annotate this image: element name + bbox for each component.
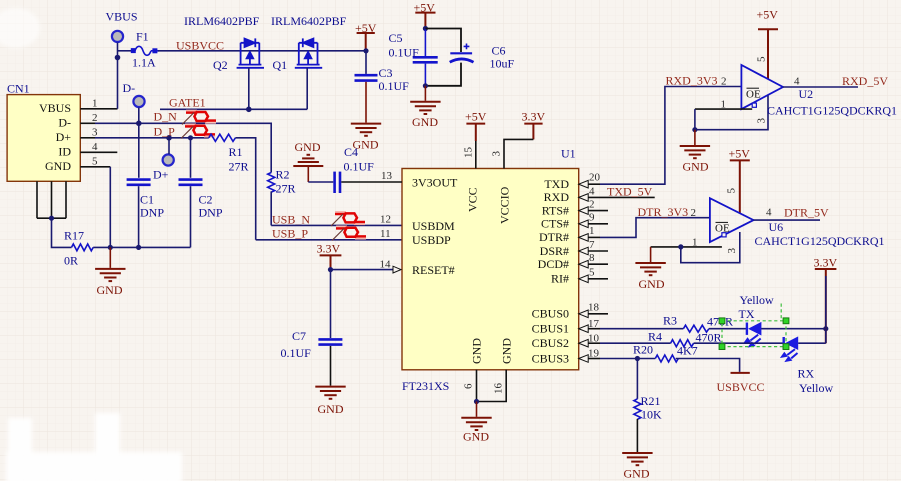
wire USB_N bbox=[271, 224, 402, 226]
svg-text:2: 2 bbox=[691, 207, 697, 219]
svg-text:0R: 0R bbox=[64, 254, 78, 268]
svg-text:DTR_5V: DTR_5V bbox=[784, 206, 829, 220]
U1 pin 20 (TXD) bbox=[579, 180, 589, 188]
svg-text:TXD_5V: TXD_5V bbox=[607, 185, 653, 199]
wire R21 to GND bbox=[636, 419, 638, 452]
LED TX bbox=[743, 322, 761, 348]
wire R17 to rail bbox=[93, 246, 110, 248]
svg-text:Yellow: Yellow bbox=[740, 293, 774, 307]
resistor R20 bbox=[655, 355, 678, 362]
transistor Q2 bbox=[237, 38, 264, 67]
svg-text:D_P: D_P bbox=[154, 125, 176, 139]
svg-text:DNP: DNP bbox=[140, 206, 164, 220]
capacitor C6 (polarized) bbox=[450, 44, 474, 63]
svg-text:RXD: RXD bbox=[544, 190, 570, 204]
CN1 pin 5 bbox=[80, 166, 110, 168]
svg-text:0.1UF: 0.1UF bbox=[281, 346, 312, 360]
svg-text:VCCIO: VCCIO bbox=[498, 186, 512, 224]
svg-text:5: 5 bbox=[92, 155, 98, 167]
svg-text:D-: D- bbox=[58, 115, 71, 129]
ground (U1) bbox=[476, 402, 478, 417]
junction RESET bbox=[328, 267, 333, 272]
green dashed box bbox=[722, 304, 786, 347]
svg-text:VBUS: VBUS bbox=[106, 10, 138, 24]
svg-text:4: 4 bbox=[794, 76, 800, 88]
fuse F1 bbox=[132, 46, 159, 55]
svg-text:10: 10 bbox=[588, 333, 600, 345]
junction shield bbox=[49, 216, 54, 221]
IC U1 body bbox=[402, 169, 579, 370]
svg-text:R20: R20 bbox=[633, 343, 653, 357]
wire C2 up to D_P bbox=[190, 138, 192, 178]
junction C2 bbox=[188, 135, 193, 140]
svg-text:C7: C7 bbox=[292, 329, 306, 343]
svg-text:USBVCC: USBVCC bbox=[176, 39, 224, 53]
pad VBUS bbox=[112, 31, 123, 42]
svg-text:ID: ID bbox=[58, 145, 71, 159]
svg-text:U6: U6 bbox=[769, 220, 784, 234]
svg-text:8: 8 bbox=[589, 252, 595, 264]
svg-text:3.3V: 3.3V bbox=[522, 110, 546, 124]
svg-text:3: 3 bbox=[726, 248, 738, 254]
svg-text:27R: 27R bbox=[229, 160, 249, 174]
U1 pin 9 (CTS#) bbox=[579, 220, 589, 228]
U1 pin 14 wire bbox=[331, 269, 394, 271]
wire D_N bbox=[95, 123, 271, 172]
resistor R4 bbox=[671, 340, 694, 347]
white smudge top-left bbox=[0, 8, 40, 48]
svg-text:Q2: Q2 bbox=[213, 58, 228, 72]
junction Q2 gate bbox=[246, 107, 252, 113]
junction D- bbox=[136, 121, 142, 127]
resistor R2 bbox=[268, 173, 275, 193]
svg-text:3V3OUT: 3V3OUT bbox=[412, 176, 458, 190]
svg-text:CBUS1: CBUS1 bbox=[532, 321, 569, 335]
svg-text:USBVCC: USBVCC bbox=[717, 380, 765, 394]
U6 output wire pin 4 bbox=[754, 219, 821, 221]
svg-text:VBUS: VBUS bbox=[39, 101, 71, 115]
ground (C7) bbox=[315, 387, 345, 399]
ground (C3) bbox=[351, 124, 381, 136]
wire GATE1 bbox=[160, 108, 307, 110]
ground (C5/C6) bbox=[424, 86, 426, 101]
svg-text:U1: U1 bbox=[561, 147, 576, 161]
junction rail-C1 bbox=[136, 245, 141, 250]
U1 GND pins 6/16 bbox=[477, 370, 507, 402]
svg-text:16: 16 bbox=[493, 383, 505, 395]
svg-text:R3: R3 bbox=[663, 314, 677, 328]
svg-text:1: 1 bbox=[692, 237, 698, 249]
wire R1 to USB_P bbox=[235, 138, 255, 240]
wire R2 to USB_N bbox=[270, 191, 272, 225]
wire Q2 gate bbox=[248, 68, 250, 110]
ground (U2) bbox=[694, 130, 696, 145]
svg-text:TXD: TXD bbox=[544, 177, 569, 191]
svg-text:R17: R17 bbox=[64, 229, 84, 243]
junction D+ bbox=[166, 135, 172, 141]
CN1 pin 1 bbox=[80, 108, 117, 110]
svg-text:RXD_3V3: RXD_3V3 bbox=[666, 74, 718, 88]
svg-text:3.3V: 3.3V bbox=[814, 256, 838, 270]
svg-text:GND: GND bbox=[683, 160, 709, 174]
wire shield to R17 bbox=[52, 218, 72, 247]
wire C4 GND stem bbox=[307, 166, 309, 182]
svg-text:+5V: +5V bbox=[729, 147, 751, 161]
svg-text:GND: GND bbox=[97, 283, 123, 297]
U1 pin 1 (DTR#) bbox=[579, 234, 589, 242]
wire D_P bbox=[95, 137, 209, 139]
svg-text:D-: D- bbox=[123, 81, 136, 95]
wire TXD to U2 input (RXD_3V3) bbox=[600, 87, 741, 185]
svg-text:15: 15 bbox=[463, 147, 475, 159]
svg-text:3: 3 bbox=[92, 126, 98, 138]
svg-text:GND: GND bbox=[500, 338, 514, 364]
wire D+ to pin3 wire bbox=[168, 138, 170, 154]
svg-text:GND: GND bbox=[295, 140, 321, 154]
U1 pin 10 (CBUS2) bbox=[579, 339, 589, 347]
U1 pin 5 (RI#) bbox=[579, 275, 589, 283]
transistor Q1 bbox=[295, 38, 322, 67]
svg-text:4: 4 bbox=[589, 186, 595, 198]
svg-text:0.1UF: 0.1UF bbox=[389, 46, 420, 60]
wire CBUS1 to R3 bbox=[600, 328, 683, 330]
svg-text:1.1A: 1.1A bbox=[132, 56, 156, 70]
svg-text:5: 5 bbox=[756, 56, 768, 62]
svg-text:OE: OE bbox=[746, 89, 761, 101]
U1 pin 8 (DCD#) bbox=[579, 260, 589, 268]
wire ground rail bbox=[110, 246, 190, 248]
wire CBUS3 to R20 bbox=[600, 358, 655, 360]
pad D- bbox=[133, 96, 144, 107]
svg-text:C4: C4 bbox=[344, 145, 358, 159]
svg-text:USB_P: USB_P bbox=[272, 227, 308, 241]
wire VBUS to fuse bbox=[118, 50, 133, 52]
svg-text:CBUS3: CBUS3 bbox=[532, 351, 569, 365]
wire VBUS vertical bbox=[117, 43, 119, 109]
svg-text:+5V: +5V bbox=[465, 110, 487, 124]
svg-text:2: 2 bbox=[589, 199, 595, 211]
svg-text:13: 13 bbox=[381, 170, 393, 182]
wire R3 to LED TX bbox=[709, 328, 747, 330]
ground (U6) bbox=[650, 247, 652, 262]
svg-text:TX: TX bbox=[739, 307, 755, 321]
wire 3.3V to C7 bbox=[330, 270, 332, 338]
junction U6 gnd bbox=[678, 244, 683, 249]
wire USB_P bbox=[256, 239, 402, 241]
wire R4 to LED RX bbox=[694, 342, 784, 344]
junction C5 top bbox=[423, 26, 428, 31]
svg-text:RX: RX bbox=[798, 367, 815, 381]
ground GND (CN1) bbox=[109, 247, 111, 268]
LED RX bbox=[780, 336, 798, 362]
svg-text:USBDM: USBDM bbox=[412, 219, 455, 233]
svg-text:DTR#: DTR# bbox=[539, 230, 569, 244]
buffer U2 triangle bbox=[741, 65, 783, 109]
svg-text:GND: GND bbox=[318, 402, 344, 416]
svg-text:27R: 27R bbox=[276, 182, 296, 196]
svg-text:19: 19 bbox=[588, 348, 600, 360]
svg-text:18: 18 bbox=[588, 302, 600, 314]
svg-text:USB_N: USB_N bbox=[272, 213, 310, 227]
svg-text:C6: C6 bbox=[492, 44, 506, 58]
wire Q1 gate bbox=[306, 68, 308, 110]
svg-text:R21: R21 bbox=[641, 394, 661, 408]
svg-text:R1: R1 bbox=[229, 145, 243, 159]
svg-text:D_N: D_N bbox=[154, 110, 178, 124]
junction U2 gnd bbox=[692, 127, 697, 132]
buffer U6 triangle bbox=[710, 198, 754, 242]
svg-text:470R: 470R bbox=[696, 331, 722, 345]
wire C1 to rail bbox=[138, 186, 140, 247]
junction U1 GND bbox=[474, 399, 479, 404]
svg-text:F1: F1 bbox=[136, 30, 149, 44]
resistor R3 bbox=[683, 325, 709, 332]
capacitor C3 bbox=[365, 51, 367, 74]
junction C5 bottom bbox=[423, 83, 428, 88]
U1 pin 18 (CBUS0) bbox=[579, 310, 589, 318]
U1 pin 15 bbox=[475, 141, 477, 169]
wire CBUS2 to R4 bbox=[600, 342, 671, 344]
junction rail-GND bbox=[108, 245, 113, 250]
svg-text:IRLM6402PBF: IRLM6402PBF bbox=[184, 14, 260, 28]
U1 pin 4 (RXD) bbox=[579, 194, 589, 202]
svg-text:DNP: DNP bbox=[199, 206, 223, 220]
svg-text:4: 4 bbox=[766, 207, 772, 219]
capacitor C4 bbox=[335, 172, 340, 193]
resistor R17 bbox=[72, 244, 94, 251]
svg-text:USBDP: USBDP bbox=[412, 233, 451, 247]
svg-text:CBUS2: CBUS2 bbox=[532, 336, 569, 350]
resistor R21 bbox=[634, 399, 641, 419]
svg-text:RESET#: RESET# bbox=[412, 263, 455, 277]
svg-text:12: 12 bbox=[380, 214, 391, 226]
CN1 shield pins bbox=[37, 181, 66, 218]
svg-text:D+: D+ bbox=[153, 168, 169, 182]
svg-text:3: 3 bbox=[491, 151, 503, 157]
svg-text:1: 1 bbox=[92, 97, 98, 109]
ferrite bead (USB_P) bbox=[336, 226, 366, 239]
wire C3 to GND bbox=[365, 82, 367, 123]
svg-text:GND: GND bbox=[470, 338, 484, 364]
wire pin5 GND drop bbox=[109, 167, 111, 248]
svg-text:C2: C2 bbox=[199, 193, 213, 207]
resistor R1 bbox=[209, 134, 236, 141]
svg-text:GND: GND bbox=[45, 159, 71, 173]
svg-text:1: 1 bbox=[589, 225, 595, 237]
wire R20 to USBVCC bbox=[676, 359, 740, 372]
wire C2 to rail bbox=[190, 186, 192, 247]
svg-text:C5: C5 bbox=[389, 31, 403, 45]
svg-text:1: 1 bbox=[721, 99, 727, 111]
svg-text:3.3V: 3.3V bbox=[317, 242, 341, 256]
wire D- pad to C1 bbox=[138, 108, 140, 178]
U2 output wire pin 4 bbox=[783, 86, 858, 88]
ground (R21) bbox=[622, 453, 652, 465]
svg-text:Yellow: Yellow bbox=[799, 381, 833, 395]
svg-text:C3: C3 bbox=[379, 66, 393, 80]
svg-text:U2: U2 bbox=[799, 87, 814, 101]
U1 pin 7 (DSR#) bbox=[579, 247, 589, 255]
U6 pin 1 wire bbox=[651, 246, 722, 248]
wire U6 pin3 path bbox=[681, 232, 740, 263]
svg-text:GND: GND bbox=[463, 430, 489, 444]
svg-text:5: 5 bbox=[589, 267, 595, 279]
svg-text:DCD#: DCD# bbox=[538, 257, 569, 271]
svg-text:IRLM6402PBF: IRLM6402PBF bbox=[271, 14, 347, 28]
green handle squares bbox=[719, 318, 789, 350]
svg-text:C1: C1 bbox=[140, 193, 154, 207]
U1 pin 2 (RTS#) bbox=[579, 207, 589, 215]
svg-text:11: 11 bbox=[380, 228, 391, 240]
capacitor C5 bbox=[424, 29, 426, 57]
ferrite bead (USB_N) bbox=[335, 212, 365, 225]
U1 pin 17 (CBUS1) bbox=[579, 325, 589, 333]
svg-text:5: 5 bbox=[726, 188, 738, 194]
wire DTR to U6 input (DTR_3V3) bbox=[600, 218, 710, 238]
svg-text:7: 7 bbox=[589, 239, 595, 251]
svg-text:D+: D+ bbox=[56, 130, 72, 144]
capacitor C2 bbox=[179, 180, 203, 185]
svg-text:CAHCT1G125QDCKRQ1: CAHCT1G125QDCKRQ1 bbox=[767, 104, 897, 118]
U6 OE bubble bbox=[722, 233, 726, 237]
U1 pin 13 wire bbox=[341, 181, 402, 183]
pad D+ bbox=[163, 154, 174, 165]
wire USBVCC bbox=[158, 50, 366, 52]
svg-text:Q1: Q1 bbox=[273, 58, 288, 72]
svg-text:4: 4 bbox=[92, 141, 98, 153]
svg-text:17: 17 bbox=[588, 318, 600, 330]
CN1 pin 4 (ID stub) bbox=[80, 151, 117, 153]
wire LED RX to 3.3V bbox=[798, 342, 826, 344]
svg-text:GND: GND bbox=[412, 115, 438, 129]
svg-text:GATE1: GATE1 bbox=[169, 96, 206, 110]
capacitor C1 bbox=[127, 180, 151, 185]
junction LED TX bbox=[823, 326, 828, 331]
svg-text:R4: R4 bbox=[648, 330, 662, 344]
svg-text:0.1UF: 0.1UF bbox=[379, 79, 410, 93]
wire C7 to GND bbox=[330, 346, 332, 386]
junction +5V node bbox=[363, 48, 368, 53]
svg-text:DSR#: DSR# bbox=[540, 244, 569, 258]
capacitor C7 bbox=[318, 339, 342, 344]
svg-text:0.1UF: 0.1UF bbox=[344, 160, 375, 174]
svg-text:10uF: 10uF bbox=[490, 57, 515, 71]
svg-text:9: 9 bbox=[589, 212, 595, 224]
svg-text:R2: R2 bbox=[276, 168, 290, 182]
ferrite bead (D_N) bbox=[186, 110, 216, 123]
wire 3.3V stem lower bbox=[825, 276, 827, 343]
svg-text:DTR_3V3: DTR_3V3 bbox=[638, 205, 689, 219]
svg-text:CAHCT1G125QDCKRQ1: CAHCT1G125QDCKRQ1 bbox=[755, 234, 885, 248]
svg-text:2: 2 bbox=[92, 112, 98, 124]
svg-text:14: 14 bbox=[380, 259, 392, 271]
svg-text:FT231XS: FT231XS bbox=[402, 379, 449, 393]
svg-text:+5V: +5V bbox=[757, 8, 779, 22]
svg-text:6: 6 bbox=[463, 383, 475, 389]
U2 OE bubble bbox=[752, 103, 756, 107]
svg-text:RTS#: RTS# bbox=[542, 203, 569, 217]
svg-text:2: 2 bbox=[721, 76, 727, 88]
svg-text:RI#: RI# bbox=[551, 272, 569, 286]
junction VBUS bbox=[115, 55, 121, 61]
U2 pin 1 wire bbox=[695, 108, 752, 110]
svg-text:CTS#: CTS# bbox=[541, 217, 569, 231]
CN1 pin 3 bbox=[80, 137, 95, 139]
svg-text:VCC: VCC bbox=[466, 187, 480, 212]
svg-text:10K: 10K bbox=[641, 408, 662, 422]
wire U2 pin1 to GND bbox=[695, 96, 768, 130]
svg-text:GND: GND bbox=[624, 467, 650, 481]
svg-text:GND: GND bbox=[639, 277, 665, 291]
junction R21 bbox=[635, 356, 640, 361]
wire CBUS3 to R21 bbox=[636, 359, 638, 399]
connector CN1 body bbox=[7, 95, 80, 182]
svg-text:20: 20 bbox=[589, 172, 601, 184]
svg-text:CN1: CN1 bbox=[7, 82, 30, 96]
ferrite bead (D_P) bbox=[185, 124, 215, 137]
CN1 pin 2 bbox=[80, 122, 95, 124]
wire C6 loop bbox=[425, 29, 461, 86]
svg-text:3: 3 bbox=[756, 118, 768, 124]
U1 pin 19 (CBUS3) bbox=[579, 355, 589, 363]
svg-text:CBUS0: CBUS0 bbox=[532, 307, 569, 321]
power USBVCC bbox=[731, 372, 750, 374]
wire LED TX to 3.3V bbox=[761, 328, 826, 330]
svg-text:4K7: 4K7 bbox=[677, 344, 698, 358]
svg-text:RXD_5V: RXD_5V bbox=[842, 74, 888, 88]
